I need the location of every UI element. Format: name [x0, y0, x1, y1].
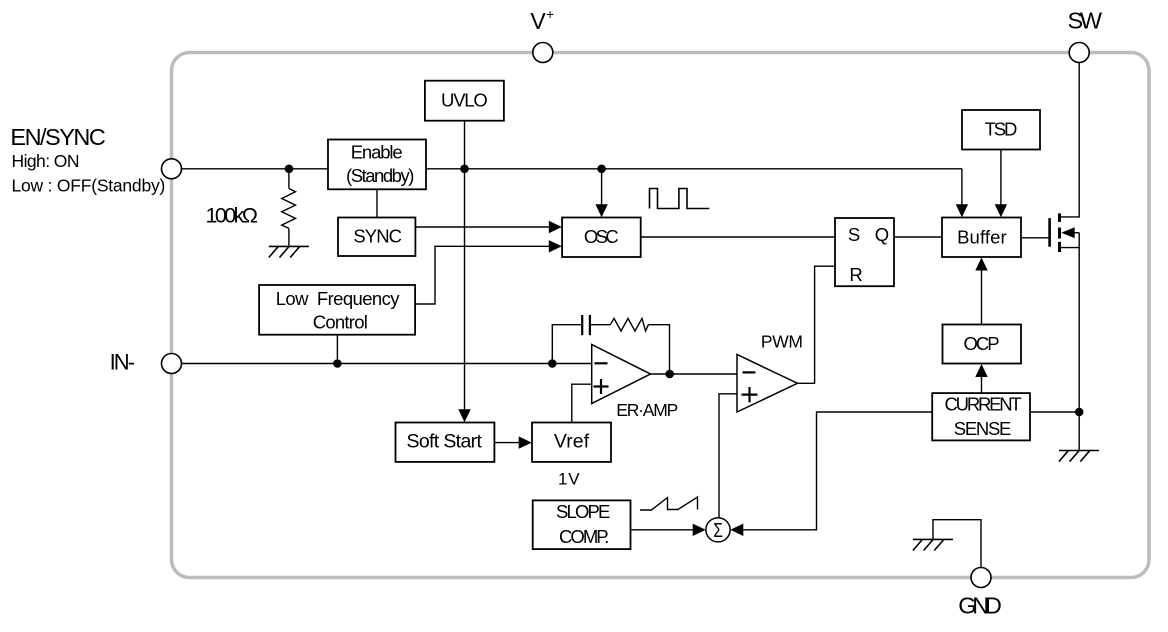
op-amp PWM comparator	[737, 355, 798, 413]
wire LFC drop to IN- row	[336, 335, 338, 364]
svg-text:Soft Start: Soft Start	[407, 430, 483, 452]
svg-text:(Standby): (Standby)	[346, 165, 414, 186]
svg-text:R: R	[849, 264, 862, 285]
ground near GND pin	[913, 539, 953, 550]
wire MOSFET source horizontal	[1061, 247, 1079, 249]
transistor Q1 channel segments	[1058, 213, 1061, 252]
pin SW	[1069, 43, 1089, 63]
arrowhead into sigma from CURRENT SENSE	[730, 524, 743, 536]
block Soft Start	[396, 423, 495, 462]
wire EN row left	[182, 168, 329, 170]
svg-text:Control: Control	[313, 312, 368, 333]
wire Q output to Buffer	[894, 236, 942, 238]
op-amp ER-AMP	[592, 345, 651, 404]
wire MOSFET body horizontal	[1073, 232, 1079, 234]
arrowhead into OSC left from SYNC	[549, 221, 562, 233]
svg-text:COMP.: COMP.	[559, 526, 609, 547]
wire feedback left vertical	[552, 325, 581, 364]
flip-flop SR latch	[835, 218, 894, 286]
arrowhead into OCP bottom from CURRENT SENSE	[975, 364, 987, 377]
ER-AMP minus sign	[595, 362, 608, 364]
svg-text:Q: Q	[875, 224, 889, 245]
svg-text:ER·AMP: ER·AMP	[616, 400, 678, 420]
block Low Frequency Control	[259, 285, 415, 335]
resistor feedback zigzag	[610, 318, 648, 331]
block OCP	[943, 325, 1022, 364]
arrowhead into Soft Start top from UVLO	[458, 409, 470, 422]
clock waveform symbol	[650, 189, 710, 209]
svg-text:OSC: OSC	[584, 226, 619, 247]
junction dot IN-feedback	[548, 359, 557, 368]
wire OSC to S input	[641, 236, 835, 238]
transistor Q1 body arrow	[1061, 227, 1075, 238]
arrowhead into OSC left from LFC	[549, 240, 562, 252]
wire SYNC to OSC	[415, 226, 550, 228]
capacitor C1 left plate	[581, 315, 583, 335]
arrowhead into OSC top	[595, 204, 607, 217]
PWM minus sign	[743, 371, 756, 373]
block SLOPE COMP	[533, 500, 631, 549]
block TSD	[962, 110, 1040, 150]
pin GND	[971, 568, 991, 588]
svg-text:Σ: Σ	[713, 519, 723, 542]
pin EN/SYNC	[162, 159, 182, 179]
svg-text:Enable: Enable	[351, 141, 403, 162]
wire MOSFET source to ground	[1078, 233, 1080, 451]
wire PWM output to R input	[798, 266, 836, 383]
ER-AMP plus sign	[594, 379, 609, 394]
svg-text:100kΩ: 100kΩ	[206, 203, 258, 227]
junction dot EN-100k	[285, 165, 294, 174]
block CURRENT SENSE	[932, 393, 1030, 440]
block Enable (Standby)	[328, 140, 426, 190]
wire Buffer to gate	[1021, 237, 1049, 239]
capacitor C1 right plate	[589, 315, 591, 335]
pin IN-	[162, 354, 182, 374]
wire CURRENT SENSE to sigma	[742, 412, 933, 530]
svg-text:CURRENT: CURRENT	[945, 394, 1022, 415]
junction dot IN-LFC	[333, 359, 342, 368]
svg-text:PWM: PWM	[761, 331, 803, 351]
wire EN row right	[426, 168, 962, 170]
svg-text:Low Frequency: Low Frequency	[276, 288, 400, 309]
svg-text:Vref: Vref	[554, 430, 590, 452]
wire 100k resistor bottom lead	[288, 228, 290, 246]
block Buffer	[942, 218, 1021, 258]
svg-text:TSD: TSD	[985, 119, 1018, 140]
ground under MOSFET source	[1059, 451, 1099, 462]
svg-text:SLOPE: SLOPE	[556, 501, 610, 522]
svg-text:High: ON: High: ON	[12, 151, 80, 171]
wire IN- row	[182, 363, 592, 365]
IC body outline	[172, 53, 1150, 578]
svg-text:OCP: OCP	[964, 333, 1000, 354]
arrowhead into sigma from SLOPE COMP	[693, 524, 706, 536]
resistor 100k zigzag	[282, 189, 296, 229]
junction dot ER-AMP output	[665, 370, 674, 379]
wire UVLO vertical	[464, 121, 466, 412]
wire sigma to PWM plus input	[719, 394, 737, 518]
svg-text:IN-: IN-	[110, 350, 136, 375]
wire TSD to Buffer	[1000, 150, 1002, 207]
block OSC	[562, 218, 641, 258]
arrowhead into Vref from Soft Start	[519, 436, 532, 448]
wire EN drop to Buffer	[961, 169, 963, 207]
wire 100k resistor top lead	[288, 169, 290, 189]
svg-text:+: +	[546, 6, 554, 22]
pin V+	[533, 43, 553, 63]
block Vref	[532, 423, 611, 462]
block SYNC	[338, 218, 415, 257]
wire LFC to OSC	[415, 246, 550, 304]
wire EN junction to OSC top	[601, 169, 603, 207]
wire capacitor to resistor	[591, 324, 610, 326]
wire feedback right vertical	[648, 325, 669, 374]
sawtooth waveform symbol	[640, 497, 698, 510]
svg-text:EN/SYNC: EN/SYNC	[10, 124, 105, 150]
svg-text:SW: SW	[1068, 8, 1103, 34]
wire SLOPE COMP to sigma	[631, 529, 695, 531]
svg-text:Low : OFF(Standby): Low : OFF(Standby)	[12, 175, 166, 195]
ground under 100k resistor	[269, 246, 309, 257]
svg-text:Buffer: Buffer	[957, 226, 1007, 247]
wire Vref to ER-AMP plus input	[572, 384, 592, 422]
wire Enable to SYNC	[376, 189, 378, 217]
arrowhead into Buffer top from TSD	[995, 204, 1007, 217]
transistor Q1 gate bar	[1048, 218, 1051, 247]
wire Soft Start to Vref	[494, 442, 519, 444]
svg-text:1V: 1V	[558, 469, 580, 488]
junction dot source-current sense	[1075, 408, 1084, 417]
wire MOSFET drain vertical	[1061, 63, 1079, 217]
PWM plus sign	[742, 387, 758, 402]
junction dot EN-OSC	[597, 165, 606, 174]
summing junction sigma	[706, 518, 730, 542]
svg-text:UVLO: UVLO	[441, 89, 488, 110]
wire CURRENT SENSE to OCP vertical	[981, 375, 983, 393]
arrowhead into Buffer bottom from OCP	[975, 258, 987, 271]
wire CURRENT SENSE to right node	[1030, 411, 1079, 413]
wire OCP to Buffer vertical	[981, 269, 983, 325]
wire ER-AMP output to PWM minus	[651, 373, 738, 375]
svg-text:GND: GND	[958, 592, 1002, 618]
wire GND pin net	[933, 520, 981, 568]
block UVLO	[425, 81, 504, 121]
junction dot EN-UVLO	[460, 165, 469, 174]
svg-text:SYNC: SYNC	[353, 226, 402, 247]
arrowhead into Buffer top from EN	[956, 204, 968, 217]
svg-text:V: V	[530, 8, 546, 34]
svg-text:S: S	[848, 224, 860, 245]
svg-text:SENSE: SENSE	[954, 418, 1012, 439]
